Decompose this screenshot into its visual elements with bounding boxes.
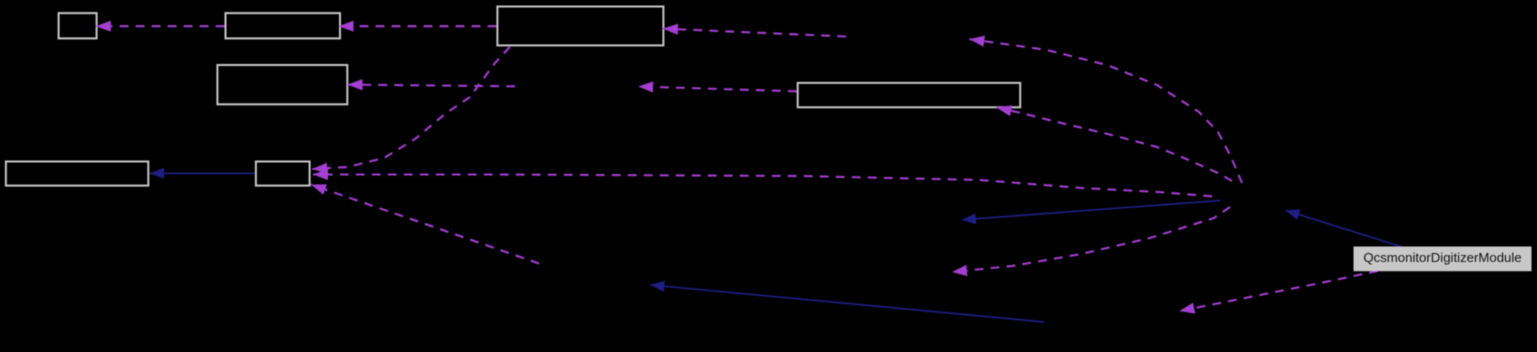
node 4: box second row — [217, 65, 347, 104]
wire: solid blue edge node7 to node6 — [150, 172, 255, 174]
wire: dashed curved edge label node to hidden node E — [1180, 271, 1378, 311]
wire: dashed edge hub to node5 — [997, 108, 1233, 182]
wire: dashed curved edge hidden node C to node7 — [311, 185, 539, 264]
wire: dashed edge node5 to hidden node B — [638, 87, 797, 92]
node 6: box left middle — [6, 162, 148, 186]
svg-text:QcsmonitorDigitizerModule: QcsmonitorDigitizerModule — [1363, 250, 1521, 265]
node 7: small box middle — [256, 162, 310, 186]
node QcsmonitorDigitizerModule: gray label box — [1354, 247, 1531, 271]
wire: dashed edge hidden node B to node4 — [348, 85, 516, 87]
wire: dashed curved edge hub to hidden node G — [952, 207, 1230, 272]
wire: solid blue edge hub to hidden node F — [962, 201, 1220, 220]
node 5: wide box middle — [798, 83, 1021, 107]
wire: dashed curved edge node3 to node7 — [312, 47, 510, 169]
node 3: large box top row — [497, 7, 663, 46]
node 1: small box top-left — [59, 13, 97, 38]
node 2: box top row second — [226, 13, 341, 38]
wire: solid blue edge hidden node E to hidden node C — [651, 285, 1045, 322]
wire: dashed edge hidden node A to node3 — [663, 29, 846, 37]
wire: long dashed edge hub to node7 — [313, 175, 1212, 197]
wire: dashed edge node2 to node1 — [96, 25, 225, 27]
wire: dashed edge node3 to node2 — [339, 25, 497, 27]
wire: solid blue edge QcsmonitorDigitizerModule label to hub — [1286, 210, 1403, 247]
wire: dashed curved edge hub to hidden node A — [969, 39, 1242, 183]
